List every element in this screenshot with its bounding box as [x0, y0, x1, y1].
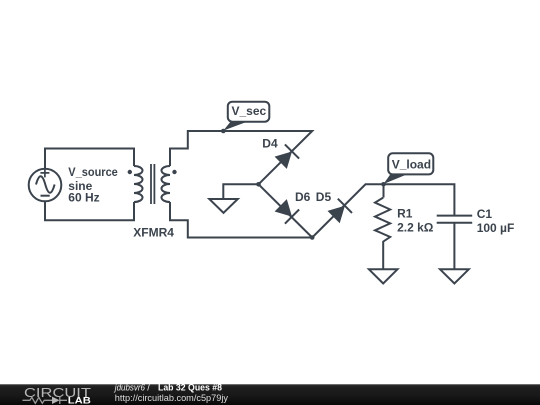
svg-text:http://circuitlab.com/c5p79jy: http://circuitlab.com/c5p79jy — [115, 393, 229, 403]
svg-text:LAB: LAB — [68, 395, 92, 405]
svg-text:100 µF: 100 µF — [477, 221, 515, 235]
svg-text:/: / — [147, 382, 150, 392]
svg-text:D6: D6 — [295, 190, 311, 204]
svg-text:XFMR4: XFMR4 — [133, 225, 174, 239]
svg-text:2.2 kΩ: 2.2 kΩ — [397, 220, 434, 234]
svg-text:V_load: V_load — [392, 157, 431, 171]
svg-text:jdubsvr6: jdubsvr6 — [113, 382, 146, 392]
svg-text:60 Hz: 60 Hz — [68, 191, 99, 205]
svg-text:D4: D4 — [262, 136, 278, 150]
svg-text:D5: D5 — [316, 190, 332, 204]
svg-text:V_sec: V_sec — [232, 104, 267, 118]
svg-text:V_source: V_source — [68, 165, 118, 179]
svg-text:Lab 32 Ques #8: Lab 32 Ques #8 — [158, 382, 222, 392]
svg-text:C1: C1 — [477, 207, 493, 221]
svg-text:R1: R1 — [397, 207, 413, 221]
